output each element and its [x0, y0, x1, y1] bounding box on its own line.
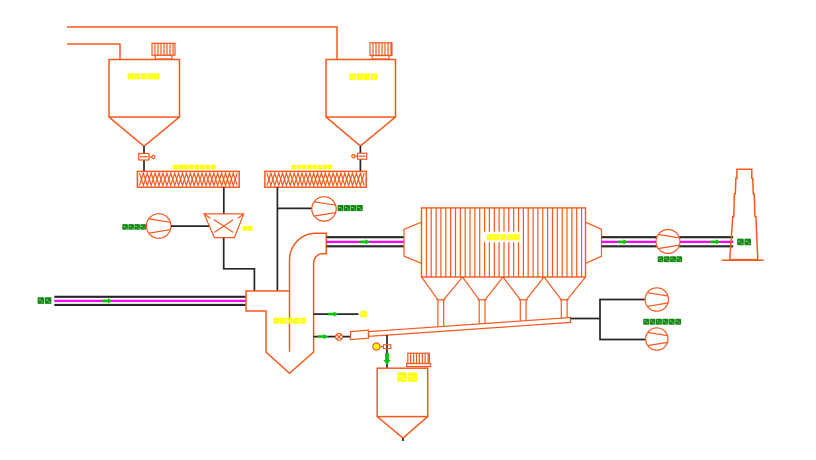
label: conveying blower (green) [122, 224, 128, 230]
wire: silo 2 discharge drop [359, 146, 361, 171]
wire: feed pipe to silo 2 [67, 27, 337, 60]
booster fan [656, 230, 680, 254]
wire: conveyor end link [571, 318, 601, 320]
mixer / ejector [204, 214, 244, 238]
wire: mixer down to reactor inlet [224, 238, 255, 291]
baghouse hoppers with legs [422, 277, 586, 326]
ash silo [377, 368, 428, 438]
pneumatic conveying fan 1 [645, 288, 668, 311]
flow arrow inlet duct [102, 298, 113, 303]
vent filter on silo 1 [152, 43, 175, 59]
vent filter on silo 2 [370, 43, 392, 59]
screw feeder 2 [265, 171, 366, 187]
wire: fan 1 to mixer [171, 225, 210, 227]
wire: feeder 1 to mixer [223, 187, 225, 214]
pneumatic conveying fan 2 [646, 328, 668, 350]
flow arrow water line [328, 312, 339, 317]
wire: fluidizing fan tap [277, 207, 311, 209]
silo 2: lime powder silo [326, 60, 396, 147]
wire: silo 1 discharge drop [143, 146, 145, 171]
wire: feeder 2 down to reactor inlet [276, 187, 278, 291]
label: screw feeder 1 (yellow) [173, 165, 178, 170]
label: booster fan (green) [658, 256, 664, 262]
duct: flue gas inlet [54, 297, 246, 305]
screw feeder 1 [137, 171, 239, 187]
flow arrow before stack [710, 239, 721, 244]
ash drag chain conveyor [351, 318, 571, 340]
label: flue gas inlet (green) [38, 297, 45, 304]
valve on ash outlet [336, 333, 343, 340]
label: bag filter (yellow) [487, 234, 493, 240]
ash silo apex tick [402, 438, 404, 441]
wire: feed pipe to silo 1 [67, 44, 120, 60]
rotary valve V1 under silo 1 [139, 154, 155, 161]
wire: water injection line [314, 313, 359, 315]
label: pipe reactor (yellow) [273, 318, 279, 324]
label: fluidizing fan (green) [338, 205, 344, 211]
duct reactor (vessel + riser) [246, 233, 326, 373]
flow arrow down into ash silo [383, 353, 390, 365]
white backing for baghouse label [484, 232, 521, 243]
fluidizing fan B2 [312, 197, 336, 221]
label: chimney (green) [737, 239, 744, 246]
duct: baghouse outlet to stack [602, 237, 734, 246]
label: mixer (yellow) [243, 226, 248, 231]
label: ash silo (yellow) [397, 372, 406, 382]
flow arrow reactor outlet [360, 239, 371, 244]
duct: reactor outlet to baghouse [327, 237, 405, 246]
wire: conveyor to ash silo drop [386, 335, 388, 368]
rotary valve V2 under silo 2 [352, 153, 367, 159]
label: water (yellow) [360, 311, 367, 318]
label: pneumatic conveying fans (green) [643, 319, 649, 325]
flow arrow ash outlet [318, 334, 329, 339]
stack / chimney [722, 169, 764, 260]
label: silo 2 (yellow) [349, 74, 356, 81]
flow arrow after baghouse [618, 239, 629, 244]
vent filter on ash silo [407, 353, 431, 366]
wire: reactor ash outlet [314, 336, 351, 338]
bag filter (baghouse) [404, 208, 602, 277]
wire: pneumatic fan bracket [600, 300, 646, 340]
label: silo 1 (yellow) [128, 73, 134, 79]
conveying blower fan B1 [146, 214, 171, 239]
silo 1: sodium bicarbonate powder silo [109, 60, 180, 147]
valve with actuator on ash silo drop [373, 343, 391, 350]
label: screw feeder 2 (yellow) [291, 165, 296, 170]
